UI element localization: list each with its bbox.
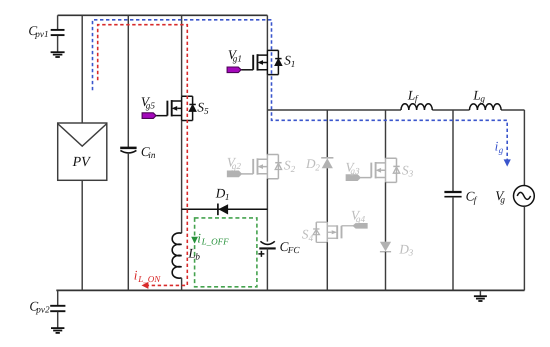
svg-text:3: 3 bbox=[408, 169, 414, 179]
svg-text:pv2: pv2 bbox=[35, 305, 50, 315]
svg-text:5: 5 bbox=[204, 106, 209, 116]
svg-text:g: g bbox=[499, 145, 504, 155]
svg-text:b: b bbox=[195, 252, 200, 262]
svg-text:1: 1 bbox=[291, 59, 296, 69]
svg-text:2: 2 bbox=[291, 164, 296, 174]
svg-text:L_ON: L_ON bbox=[137, 274, 161, 284]
svg-text:3: 3 bbox=[408, 248, 414, 258]
svg-text:g5: g5 bbox=[146, 101, 156, 111]
svg-text:g3: g3 bbox=[350, 166, 360, 176]
svg-text:g1: g1 bbox=[233, 53, 242, 63]
svg-text:1: 1 bbox=[225, 192, 230, 202]
svg-text:4: 4 bbox=[309, 233, 314, 243]
svg-text:g2: g2 bbox=[232, 161, 242, 171]
svg-text:pv1: pv1 bbox=[34, 29, 48, 39]
svg-text:in: in bbox=[148, 150, 156, 160]
svg-text:g: g bbox=[500, 194, 505, 204]
svg-text:2: 2 bbox=[315, 163, 320, 173]
svg-text:i: i bbox=[134, 268, 138, 283]
svg-text:g: g bbox=[480, 94, 485, 104]
svg-text:FC: FC bbox=[287, 245, 301, 255]
svg-text:L_OFF: L_OFF bbox=[201, 237, 230, 247]
svg-text:PV: PV bbox=[72, 155, 92, 170]
svg-text:i: i bbox=[197, 230, 201, 245]
svg-text:g4: g4 bbox=[356, 214, 366, 224]
